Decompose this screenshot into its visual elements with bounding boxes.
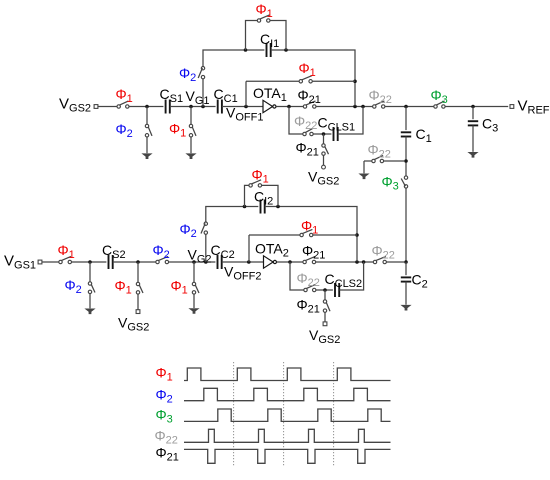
wire node to C1 [405, 107, 407, 131]
wire CCLS1 node down [323, 134, 325, 144]
wire input to switch phi1 row2 [42, 261, 59, 263]
switch phi1 to ground row1 [189, 124, 196, 137]
node bypass right row1 [284, 48, 288, 52]
wire phi21 to phi22 row1 [316, 106, 373, 108]
switch phi22 CLS row2 [304, 284, 316, 291]
switch phi3 output [434, 101, 445, 108]
capacitor CS2 [109, 255, 113, 269]
wire VG1 up to phi2 switch [202, 79, 204, 107]
wire OTA1 output [276, 106, 303, 108]
wire C3 to ground [472, 125, 474, 151]
switch phi2 to ground row1 [145, 124, 152, 137]
terminal VGS2 row2 [323, 322, 327, 326]
switch phi1 to ground row2 [192, 282, 199, 294]
wire feedback switch left row2 [249, 234, 300, 236]
switch phi2 to ground row2 [88, 282, 95, 294]
wire feedback switch right row2 [313, 234, 357, 236]
wire node to C3 [472, 107, 474, 120]
waveform phi21 [184, 449, 391, 463]
wire VG1 to phi1 ground switch [190, 107, 192, 125]
node C3 top [471, 105, 475, 109]
capacitor CC1 [218, 100, 222, 114]
node C2 top [404, 260, 408, 264]
terminal VGS2 row1 [322, 165, 326, 169]
input terminal VGS1 [38, 260, 42, 264]
wire feedback switch left row1 [246, 80, 299, 82]
switch phi1 feedback row1 [299, 76, 312, 83]
wire CS1 to CC1 [170, 106, 216, 108]
wire phi3 to VREF [445, 106, 508, 108]
node VOFF1 [244, 105, 248, 109]
waveform phi22 [184, 429, 391, 442]
wire to ground [363, 161, 365, 173]
wire phi22 to phi3 row1 [385, 106, 434, 108]
node VOFF2 [247, 260, 251, 264]
waveform phi3 [184, 409, 391, 421]
capacitor CI2 [261, 200, 265, 214]
switch phi21 to VGS2 row2 [323, 300, 330, 313]
wire CCLS1 right leg up [338, 107, 363, 135]
switch phi2 integrator row2 [201, 222, 208, 234]
wire phi3 down to row2 node [405, 188, 407, 262]
wire to ground [146, 137, 148, 153]
wire to CCLS2 [316, 289, 333, 291]
capacitor C1 [401, 132, 411, 136]
wire ground stub phi22 [364, 160, 372, 162]
ground below phi1 row2 [188, 308, 199, 314]
switch phi21 to VGS2 row1 [322, 144, 329, 156]
wire phi21 to phi22 row2 [316, 261, 374, 263]
timing diagram dotted period separators [234, 362, 334, 466]
switch phi21 row2 [303, 256, 316, 263]
wire to CI2 left [206, 207, 258, 223]
node CCLS1 left [322, 132, 326, 136]
node CCLS1 right leg [361, 105, 365, 109]
switch phi1 feedback row2 [300, 229, 313, 236]
node integrator right leg row2 [355, 260, 359, 264]
capacitor CC2 [218, 255, 222, 269]
node CCLS2 right leg [362, 260, 366, 264]
switch phi1 to VGS2 row2 [136, 282, 143, 294]
capacitor C3 [468, 121, 478, 125]
node integrator right leg row1 [353, 105, 357, 109]
wire OTA2 output [277, 261, 303, 263]
wire OTA2 out down to CLS branch [290, 262, 304, 290]
wire to ground [190, 137, 192, 153]
node phi2-ground branch row2 [88, 260, 92, 264]
wire phi2 to CC2 [169, 261, 216, 263]
switch phi22 to ground row1 [372, 155, 384, 162]
wire node to C2 [405, 262, 407, 275]
wire phi22 to C2 node [386, 261, 404, 263]
capacitor CS1 [166, 100, 170, 114]
wire VG2 to phi1 ground switch [193, 262, 195, 282]
switch phi1 bypass CI2 [249, 180, 262, 187]
wire to VGS2 terminal [324, 312, 326, 322]
ground below C2 [400, 305, 411, 311]
wire OTA1 out down to CLS branch [289, 107, 303, 135]
wire feedback switch right row1 [312, 80, 355, 82]
wire to ground [89, 294, 91, 309]
op-amp OTA2 [264, 256, 277, 268]
node feedback switch right row2 [355, 233, 359, 237]
node CCLS2 left [323, 288, 327, 292]
wire VG2 up to phi2 switch [205, 234, 207, 262]
wire to CI1 left [203, 50, 264, 66]
wire CS2 to phi2 switch [113, 261, 156, 263]
node OTA1 output [287, 105, 291, 109]
capacitor CCLS2 [335, 283, 339, 297]
capacitor CCLS1 [334, 127, 338, 141]
switch phi22 row1 series [373, 101, 385, 108]
switch phi3 column [401, 176, 407, 188]
node OTA2 output [288, 260, 292, 264]
switch phi2 integrator row1 [198, 67, 205, 79]
switch phi22 CLS row1 [303, 128, 313, 135]
wire to VGS2 terminal [137, 294, 139, 310]
node at phi2-ground branch row1 [145, 105, 149, 109]
node C1 bottom [404, 159, 408, 163]
ground below phi2 row2 [84, 309, 95, 315]
wire node to phi1 switch row2 [137, 262, 139, 282]
ground below phi2 row1 [141, 153, 152, 159]
ground below phi1 row1 [185, 153, 196, 159]
wire bypass left row2 [245, 185, 250, 206]
wire switch to CS1 [129, 106, 163, 108]
input terminal VGS2 [94, 105, 98, 109]
wire to CCLS1 [313, 133, 331, 135]
wire bypass right row1 [270, 21, 286, 51]
waveform phi2 [184, 388, 391, 400]
wire input to switch phi1 [98, 106, 117, 108]
node C1 top [404, 105, 408, 109]
wire C2 to ground [405, 282, 407, 305]
wire CI2 right leg down [265, 207, 357, 262]
wire switch to CS2 [72, 261, 107, 263]
node VG2 integrator branch [204, 260, 208, 264]
op-amp OTA1 [263, 100, 276, 112]
output terminal VREF [510, 105, 514, 109]
switch phi1 bypass CI1 [257, 15, 270, 22]
wire node to phi2 ground switch row2 [89, 262, 91, 282]
switch phi1 input row2 [59, 256, 72, 263]
wire CCLS2 right leg up [339, 262, 363, 290]
terminal VGS2 row2 mid [136, 310, 140, 314]
node VG1 at integrator branch [201, 105, 205, 109]
switch phi21 row1 [303, 101, 316, 108]
ground below phi22 [358, 174, 369, 180]
wire CI1 right leg down [271, 50, 355, 106]
wire C1 to phi3 switch [405, 137, 407, 176]
wire feedback to VOFF2 [248, 235, 250, 262]
capacitor CI1 [267, 43, 271, 57]
wire to VGS2 terminal [323, 155, 325, 165]
wire CC2 to OTA2 input [222, 261, 264, 263]
node bypass right row2 [276, 205, 280, 209]
wire phi22 to node [384, 160, 405, 162]
wire CC1 to OTA1 input [222, 106, 263, 108]
wire bypass left row1 [246, 21, 258, 51]
ground below C3 [467, 152, 478, 158]
wire node to phi2 ground switch [146, 107, 148, 125]
node phi1-VGS2 branch row2 [136, 260, 140, 264]
switch phi22 row2 series [373, 256, 386, 263]
node bypass left row1 [244, 48, 248, 52]
switch phi2 series row2 [156, 256, 169, 263]
node bypass left row2 [243, 205, 247, 209]
waveform phi1 [184, 368, 391, 381]
node VG2 [192, 260, 196, 264]
wire to ground [193, 294, 195, 308]
wire CCLS2 node down [324, 290, 326, 300]
capacitor C2 [401, 277, 411, 281]
wire feedback to VOFF1 [245, 81, 247, 106]
switch S1 phi1 (input row1) [117, 101, 129, 108]
wire bypass right row2 [262, 185, 279, 206]
node VG1 at phi1-ground branch [189, 105, 193, 109]
node feedback switch right [353, 80, 357, 84]
